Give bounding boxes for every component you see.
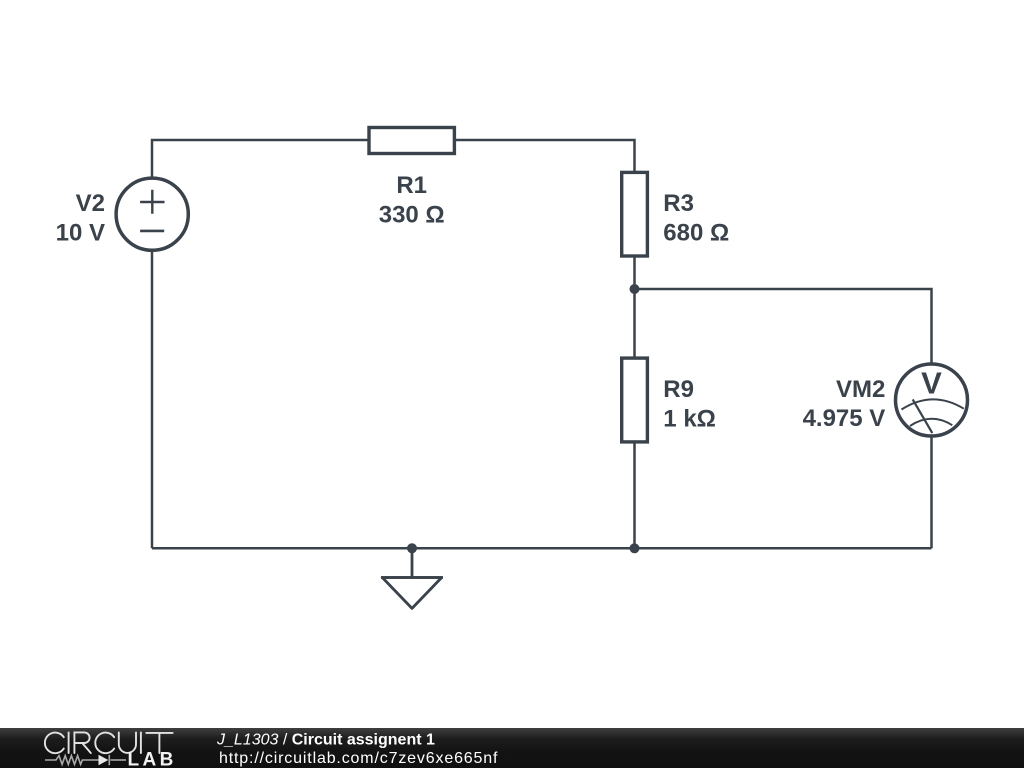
label V2 value bbox=[56, 190, 105, 246]
wire R3 bottom to mid junction bbox=[633, 257, 636, 289]
wire top-left from V2 to R1 bbox=[152, 140, 368, 178]
svg-text:V: V bbox=[921, 366, 942, 401]
svg-text:LAB: LAB bbox=[128, 750, 177, 768]
svg-text:VM2: VM2 bbox=[836, 376, 885, 403]
svg-text:V2: V2 bbox=[76, 190, 105, 217]
CircuitLab logo zigzag and diode bbox=[45, 755, 126, 765]
label R9 value bbox=[663, 376, 716, 432]
svg-text:680 Ω: 680 Ω bbox=[663, 219, 729, 246]
wire R9 bottom to bottom rail bbox=[633, 443, 636, 548]
svg-text:R1: R1 bbox=[396, 172, 427, 199]
svg-text:1 kΩ: 1 kΩ bbox=[663, 405, 716, 432]
resistor R9 bbox=[622, 358, 648, 442]
CircuitLab logo diode triangle bbox=[99, 755, 109, 765]
svg-text:4.975 V: 4.975 V bbox=[803, 405, 886, 432]
wire voltmeter bottom bbox=[930, 437, 933, 549]
ground bbox=[381, 548, 443, 608]
svg-text:http://circuitlab.com/c7zev6xe: http://circuitlab.com/c7zev6xe665nf bbox=[219, 750, 498, 767]
wire mid horizontal to voltmeter branch bbox=[635, 289, 932, 364]
svg-text:330 Ω: 330 Ω bbox=[379, 202, 445, 229]
resistor R1 bbox=[369, 128, 454, 154]
wire V2 bottom to bottom rail bbox=[151, 251, 154, 549]
label VM2 value bbox=[803, 376, 886, 432]
junction node at bottom rail right bbox=[630, 543, 640, 553]
label R3 value bbox=[663, 190, 729, 246]
svg-text:10 V: 10 V bbox=[56, 219, 105, 246]
wire R1 right to top of R3 bbox=[456, 140, 635, 171]
resistor R3 bbox=[622, 172, 648, 256]
svg-text:R9: R9 bbox=[663, 376, 694, 403]
junction node at ground bbox=[407, 543, 417, 553]
voltmeter VM2 bbox=[896, 364, 968, 436]
CircuitLab logo CIRCUIT (thin hand-drawn letters) bbox=[45, 732, 173, 753]
svg-text:J_L1303 / Circuit assignent 1: J_L1303 / Circuit assignent 1 bbox=[216, 731, 435, 748]
label R1 value bbox=[379, 172, 445, 229]
junction node at R3/R9/VM2 bbox=[630, 284, 640, 294]
wire bottom rail bbox=[152, 547, 932, 550]
voltage source V2 bbox=[116, 178, 188, 250]
svg-text:R3: R3 bbox=[663, 190, 694, 217]
wire junction to R9 top bbox=[633, 289, 636, 357]
